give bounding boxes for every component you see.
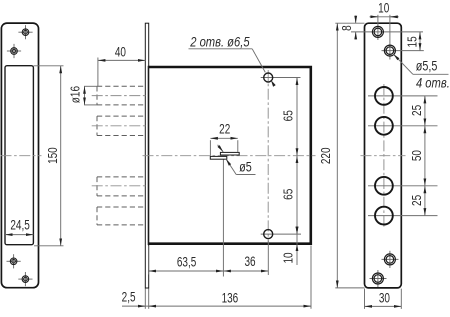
dimension 2,5 and 136 extension lines [144, 289, 146, 309]
dimension 2,5 and 136 shared line [122, 305, 311, 307]
dimension 22 [210, 137, 237, 139]
slot B centerline [92, 125, 146, 127]
hole 6,5 top [264, 73, 273, 82]
dimension 24,5 [5, 234, 33, 236]
holes vertical centerline [267, 70, 269, 242]
countersunk hole A crosshair [351, 31, 423, 33]
hidden slot B end [96, 116, 98, 135]
svg-text:2 отв. ø6,5: 2 отв. ø6,5 [189, 35, 249, 50]
hidden slot C bottom [97, 195, 145, 197]
dimension 63,5 extension lines [148, 246, 150, 275]
keyhole upper bar [220, 152, 239, 155]
big hole 2 [375, 117, 393, 135]
hidden slot B bottom [97, 135, 145, 137]
dimension d5 arrow lower leader [226, 159, 236, 175]
dimension 30 extension lines [364, 289, 366, 309]
keyhole vertical line [222, 158, 224, 277]
dimension 8 [355, 16, 357, 24]
svg-text:10: 10 [378, 0, 389, 16]
screw hole crosshair 3 [7, 260, 21, 262]
hidden slot D bottom [97, 224, 145, 226]
plate vertical centerline [383, 84, 385, 228]
svg-text:15: 15 [407, 36, 420, 47]
bottom hole horizontal extension [261, 233, 301, 235]
dimension 63,5 [149, 270, 224, 272]
hole 6,5 bottom [264, 230, 273, 239]
svg-text:ø16: ø16 [70, 86, 83, 103]
svg-text:150: 150 [47, 147, 60, 164]
big hole 1 [375, 87, 393, 105]
dimension 150 extension lines [34, 65, 64, 67]
big hole 3 crosshair [368, 185, 438, 187]
big hole 4 [375, 207, 393, 225]
dimension 40 extension line [97, 58, 99, 87]
svg-text:25: 25 [411, 105, 424, 116]
dimension 25 top [424, 96, 426, 126]
svg-text:8: 8 [341, 25, 354, 31]
svg-text:22: 22 [219, 121, 230, 137]
top hole horizontal extension [261, 77, 301, 79]
faceplate edge strip [145, 23, 148, 288]
dimension 10 line [296, 228, 298, 266]
dimension 40 [98, 59, 145, 61]
dimension 136 right arrow [304, 305, 311, 307]
countersunk hole B crosshair [382, 50, 424, 52]
faceplate outer plate [1, 23, 38, 288]
svg-text:136: 136 [222, 290, 239, 306]
svg-text:63,5: 63,5 [177, 254, 197, 270]
dimension d5 arrow upper [218, 145, 224, 152]
dimension 65 top [296, 78, 298, 156]
countersunk hole B [384, 45, 395, 56]
hidden slot A end [96, 86, 98, 105]
hidden slot A top [97, 85, 145, 87]
plate horizontal centerline [361, 155, 406, 157]
faceplate inner rectangle [5, 66, 33, 245]
dimension 8 extension [335, 22, 364, 24]
faceplate horizontal centerline [1, 155, 42, 157]
dimension 2,5 left arrow [139, 305, 146, 307]
hidden slot B top [97, 115, 145, 117]
slot C centerline [92, 185, 146, 187]
svg-text:2,5: 2,5 [122, 289, 136, 305]
big hole 2 crosshair [368, 125, 438, 127]
countersunk hole D crosshair [370, 278, 387, 280]
hidden slot D end [96, 207, 98, 225]
big hole 3 [375, 177, 393, 195]
svg-text:25: 25 [411, 195, 424, 206]
svg-text:4 отв.: 4 отв. [416, 76, 450, 91]
dimension 22 extension lines [209, 140, 211, 156]
dimension 25 bottom [424, 186, 426, 216]
svg-text:40: 40 [115, 44, 126, 60]
back plate [365, 23, 402, 288]
dimension d16 extension lines [84, 85, 97, 87]
svg-text:ø5,5: ø5,5 [416, 59, 438, 74]
hidden slot C end [96, 177, 98, 196]
dimension 30 [365, 305, 402, 307]
lock body case [149, 67, 311, 244]
hidden slot D top [97, 206, 145, 208]
note d5,5 leader [394, 54, 413, 74]
body horizontal centerline [143, 155, 316, 157]
screw hole crosshair 2 [7, 50, 21, 52]
svg-text:ø5: ø5 [239, 159, 252, 174]
screw hole crosshair 1 [18, 31, 32, 33]
svg-text:65: 65 [283, 110, 296, 121]
countersunk hole A [372, 26, 383, 37]
svg-text:10: 10 [282, 252, 295, 263]
dimension 10 top [370, 16, 399, 18]
dimension 220 [336, 23, 338, 288]
svg-text:50: 50 [411, 150, 424, 161]
countersunk hole D [372, 273, 383, 284]
dimension 150 [60, 66, 62, 246]
big hole 1 crosshair [368, 95, 438, 97]
svg-text:65: 65 [283, 189, 296, 200]
slot A centerline [92, 95, 146, 97]
dimension 220 extension [335, 287, 364, 289]
svg-text:24,5: 24,5 [10, 217, 30, 233]
big hole 4 crosshair [368, 215, 438, 217]
dimension d16 [84, 86, 86, 105]
countersunk hole C crosshair [382, 258, 399, 260]
dimension 36 [223, 270, 268, 272]
hidden slot A bottom [97, 104, 145, 106]
dimension 2,5 right arrow [149, 305, 156, 307]
keyhole lower bar [210, 156, 227, 159]
svg-text:30: 30 [379, 290, 390, 306]
svg-text:220: 220 [320, 147, 333, 164]
countersunk hole C [384, 254, 395, 265]
screw hole crosshair 4 [18, 278, 32, 280]
dimension 50 [424, 126, 426, 186]
dimension 15 [419, 32, 421, 51]
dimension 65 bottom [296, 156, 298, 234]
svg-text:36: 36 [244, 254, 255, 270]
hidden slot C top [97, 176, 145, 178]
